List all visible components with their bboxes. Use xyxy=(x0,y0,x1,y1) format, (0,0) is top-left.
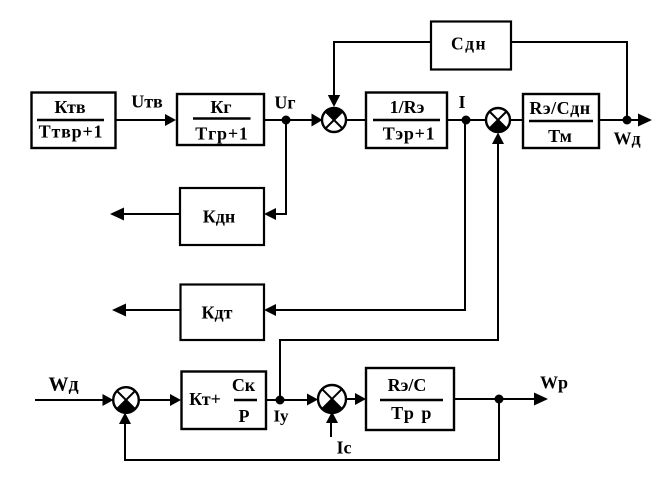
svg-text:Wд: Wд xyxy=(613,129,640,149)
block B5 Сдн xyxy=(431,22,511,70)
node Iу xyxy=(276,396,285,405)
svg-text:Iс: Iс xyxy=(337,438,352,458)
wire B2 to J1 xyxy=(264,114,323,127)
svg-text:Тэр+1: Тэр+1 xyxy=(383,124,436,144)
block B9 (Rэ/С)/(Тр р) xyxy=(366,368,454,430)
svg-text:Тр р: Тр р xyxy=(391,403,433,423)
svg-text:Rэ/Сдн: Rэ/Сдн xyxy=(529,98,590,118)
wire B1 to B2 xyxy=(115,114,176,126)
wire J4 to B9 xyxy=(345,393,366,405)
svg-text:Wд: Wд xyxy=(48,374,78,396)
summing junction J4 xyxy=(318,385,346,413)
svg-text:Ктв: Ктв xyxy=(54,97,85,117)
wire I node down to Кдт with arrow xyxy=(264,120,465,316)
wire Сдн left to down corner xyxy=(334,42,431,50)
wire Wд input to J3 xyxy=(35,394,114,406)
wire feedback Wр to J3 with arrow xyxy=(119,399,499,460)
node I xyxy=(462,116,471,125)
wire J1 to B3 xyxy=(345,119,366,121)
svg-text:Сдн: Сдн xyxy=(451,34,487,54)
svg-text:Wр: Wр xyxy=(540,373,568,393)
svg-text:Кдт: Кдт xyxy=(202,303,233,323)
svg-text:Кт+: Кт+ xyxy=(189,389,221,409)
svg-text:Ттвр+1: Ттвр+1 xyxy=(39,122,104,142)
wire Кдт output arrow xyxy=(112,304,181,317)
block B7 Кдт xyxy=(181,285,265,341)
svg-text:Кг: Кг xyxy=(210,97,231,117)
block B3 (1/Rэ)/(Тэр+1) xyxy=(366,93,447,149)
wire Кдн output arrow xyxy=(110,208,180,221)
svg-text:1/Rэ: 1/Rэ xyxy=(390,97,425,117)
block B1 Ктв/(Ттвр+1) xyxy=(32,93,116,149)
svg-text:I: I xyxy=(458,92,465,112)
wire Uг node down to Кдн with arrow xyxy=(264,120,286,220)
wire B8 to J4 xyxy=(266,394,318,406)
node Wд xyxy=(623,116,632,125)
wire Сдн to J1 top with arrow xyxy=(328,42,340,107)
block B2 Кг/(Тгр+1) xyxy=(177,94,264,145)
wire B4 to output Wд xyxy=(599,114,652,127)
svg-text:Р: Р xyxy=(239,406,250,426)
svg-text:Тгр+1: Тгр+1 xyxy=(195,124,248,144)
wire J2 to B4 xyxy=(509,119,523,121)
svg-text:Iу: Iу xyxy=(273,407,289,426)
svg-text:Uг: Uг xyxy=(274,93,295,113)
node Uг xyxy=(282,116,291,125)
wire Iс into J4 with arrow xyxy=(326,412,338,438)
node Wр xyxy=(495,395,504,404)
wire B3 to J2 xyxy=(447,119,487,121)
summing junction J1 xyxy=(322,108,346,132)
block B8 Кт+Ск/Р xyxy=(182,372,267,430)
svg-text:Uтв: Uтв xyxy=(131,92,163,112)
svg-text:Ск: Ск xyxy=(232,375,256,395)
block B4 (Rэ/Сдн)/Тм xyxy=(523,94,599,148)
summing junction J2 xyxy=(486,108,510,132)
svg-text:Кдн: Кдн xyxy=(203,207,236,227)
svg-text:Тм: Тм xyxy=(548,126,572,146)
wire Iу up and over to J2 with arrow xyxy=(280,133,504,401)
wire B9 to output Wр xyxy=(454,393,548,406)
wire Wд node up to Сдн xyxy=(512,42,627,120)
summing junction J3 xyxy=(113,387,139,413)
block B6 Кдн xyxy=(180,188,264,245)
svg-text:Rэ/С: Rэ/С xyxy=(388,375,427,395)
wire J3 to B8 xyxy=(138,394,181,406)
